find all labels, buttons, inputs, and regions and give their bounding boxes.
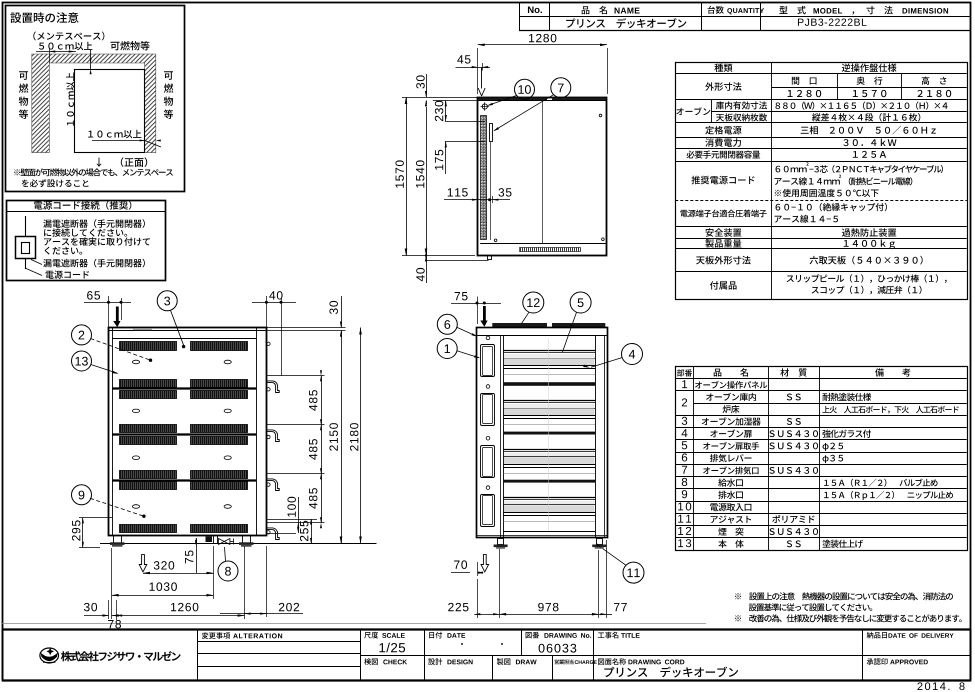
front direction label	[97, 157, 148, 167]
plan bottom foot	[488, 256, 492, 260]
charge label	[554, 659, 573, 664]
callout 10	[515, 79, 535, 99]
approved label	[867, 658, 888, 665]
dim 45	[457, 55, 470, 63]
parts row 1	[682, 380, 687, 388]
plan power inlet circle	[482, 104, 487, 109]
dim 978	[538, 603, 558, 611]
front body outline	[477, 328, 608, 538]
breaker symbol	[25, 216, 27, 237]
parts row 8	[682, 478, 687, 486]
deck divider line 3	[112, 479, 256, 481]
plan chimney duct dotted	[481, 116, 487, 240]
delivery label	[867, 632, 887, 639]
note line3	[735, 614, 962, 622]
company logo	[40, 648, 59, 663]
combustibles right label	[164, 71, 173, 80]
parts row 2 num	[682, 398, 687, 406]
50cm dimension	[36, 51, 76, 53]
plan center split line	[542, 100, 544, 243]
spec row outer dims	[705, 82, 741, 91]
dim 1570	[395, 160, 403, 187]
deck sections	[503, 350, 595, 352]
power cord box	[7, 201, 166, 281]
maintenance space label	[33, 32, 104, 41]
installation notes title	[10, 12, 78, 23]
callout 1	[437, 339, 457, 359]
parts row 10	[678, 502, 691, 510]
spec cord line2	[775, 177, 840, 185]
spec row kind	[714, 64, 732, 72]
dim 115	[448, 188, 468, 196]
dim 255	[311, 519, 313, 544]
design label	[428, 658, 442, 665]
spec row sheet size	[696, 256, 751, 265]
front right column lines	[595, 336, 597, 538]
side view gray patch top	[133, 329, 152, 331]
title label	[598, 632, 618, 639]
plan foot ext line	[426, 260, 489, 262]
date dots	[461, 643, 463, 645]
power cord label	[46, 270, 89, 278]
title block verticals	[197, 629, 199, 680]
title block frame	[2, 628, 971, 630]
dim 1030	[150, 582, 177, 590]
callout 7	[551, 78, 571, 98]
installation notes box	[6, 6, 185, 192]
side view inner right line	[256, 328, 258, 536]
vent band deck1 top	[120, 342, 177, 351]
spec row consumption	[705, 138, 741, 147]
front base lines	[503, 531, 595, 533]
spec row breaker	[687, 151, 761, 159]
vent band deck3 top	[120, 437, 177, 445]
10cm bottom dimension	[92, 140, 145, 142]
spec terminal line2	[775, 215, 838, 223]
drawing no value	[539, 644, 577, 653]
callout 2	[72, 325, 92, 345]
callout 5	[570, 292, 591, 313]
deck divider line 2	[112, 433, 256, 435]
dim 225	[448, 603, 468, 611]
separator line above title block	[2, 623, 706, 625]
dim 30 bottom	[84, 603, 97, 611]
hatched wall region	[32, 54, 156, 153]
dim 230	[435, 101, 443, 121]
dim 30 plan left	[416, 75, 424, 88]
parts row 9	[682, 490, 687, 498]
scale label	[364, 632, 378, 639]
parts header	[677, 369, 692, 376]
parts row 11	[678, 515, 691, 523]
vent band deck4 top	[120, 482, 177, 490]
dim 35	[498, 188, 511, 196]
dim 77	[614, 603, 627, 611]
down arrow 70	[481, 555, 489, 572]
vent band deck2 top	[120, 391, 177, 399]
parts row 12	[678, 527, 691, 535]
check label	[364, 658, 378, 665]
plan exhaust slot item7	[490, 124, 493, 142]
wall note line2	[22, 179, 89, 187]
10cm bottom label	[88, 130, 141, 139]
power cord box title	[34, 201, 131, 210]
side legs	[114, 536, 122, 544]
callout 9	[72, 485, 92, 505]
dim 1540	[416, 160, 424, 187]
callout 8	[218, 561, 238, 581]
parts row 4	[682, 429, 688, 437]
draw label	[497, 658, 511, 665]
deck divider line 1	[112, 387, 256, 389]
dim 485 stack	[321, 376, 323, 523]
side view top plate lines	[109, 330, 267, 332]
dim 2180	[360, 328, 362, 544]
plan bottom vent strip	[520, 248, 581, 252]
front top plate	[477, 335, 608, 337]
spec row terminal label	[680, 210, 766, 218]
header table grid	[519, 2, 521, 31]
spec table grid	[676, 63, 968, 300]
company name	[61, 651, 180, 661]
drawing no label	[526, 632, 540, 639]
dim 202	[279, 603, 299, 611]
combustibles left label	[19, 71, 28, 80]
drawing name label	[598, 658, 626, 665]
scale value	[379, 643, 405, 653]
panel circles	[486, 336, 490, 340]
dim 1280	[529, 34, 556, 42]
plan view outline	[478, 98, 607, 256]
spec row inner dims	[716, 101, 767, 109]
parts row 13	[678, 539, 691, 547]
callout 4	[622, 344, 643, 365]
spec terminal line1	[776, 203, 887, 211]
dim 40 plan	[416, 268, 424, 281]
dim 2150	[341, 331, 343, 544]
spec row weight	[705, 239, 741, 248]
callout 3	[157, 291, 177, 311]
ground line side view	[100, 543, 377, 545]
operation panels	[481, 345, 495, 377]
dim 78	[108, 620, 121, 628]
dim 70	[454, 560, 467, 568]
combustibles top label	[111, 41, 150, 50]
parts row 7	[682, 466, 687, 474]
side view inner left line	[112, 328, 114, 536]
dim 75 side	[196, 538, 198, 573]
front left column lines	[500, 336, 502, 538]
dim 75 front top	[455, 292, 468, 300]
header model number	[798, 18, 867, 25]
door handles side	[266, 375, 324, 377]
dim 1260	[171, 603, 198, 611]
parts row 6	[682, 453, 687, 461]
callout 11	[623, 562, 644, 583]
dim 320	[154, 561, 174, 569]
parts row 3	[682, 417, 687, 425]
oven footprint rect	[75, 70, 145, 153]
spec row cord label	[691, 176, 754, 185]
dim 295	[82, 518, 84, 547]
plan inner bottom line	[480, 243, 605, 245]
dim 65 side top	[87, 291, 100, 299]
parts row 5	[682, 441, 687, 449]
callout 13	[72, 351, 92, 371]
plan top band bottom line	[478, 100, 607, 102]
drain assembly	[206, 537, 213, 543]
power drop thick arrow front	[483, 306, 486, 321]
callout 6	[437, 314, 457, 334]
date label	[429, 632, 442, 639]
alteration rows	[198, 641, 361, 643]
wall note line1	[14, 168, 173, 176]
header product name	[566, 18, 686, 28]
side view body outline	[109, 328, 267, 536]
dim 100	[298, 497, 300, 533]
parts table grid	[676, 367, 968, 551]
parts row 2b	[723, 405, 740, 413]
breaker label	[43, 259, 145, 268]
50cm label	[39, 42, 92, 51]
spec cord line1	[776, 166, 807, 173]
spec oven label	[676, 107, 710, 115]
power cord drop arrow plan	[481, 67, 483, 88]
plan top chimney band	[479, 98, 548, 101]
alteration label	[202, 632, 230, 639]
door hinge circles	[267, 342, 270, 345]
spec cord line3	[775, 189, 879, 197]
breaker instruction text	[43, 219, 145, 228]
10cm top dimension	[90, 50, 92, 69]
vent band deck1 bottom	[120, 380, 177, 388]
spec row safety	[706, 228, 742, 237]
front legs	[498, 539, 504, 545]
vent band deck3 bottom	[120, 471, 177, 479]
dim 40 side top	[269, 291, 282, 299]
spec row accessories	[710, 281, 737, 289]
header table labels	[528, 6, 542, 13]
power cord label leader	[25, 268, 42, 276]
front center faint line	[548, 338, 550, 531]
front chimney band	[492, 323, 547, 328]
drawing name value	[604, 667, 738, 678]
parts row 2a	[706, 393, 756, 401]
10cm vertical label	[66, 73, 75, 126]
down arrow 320	[139, 555, 147, 572]
date stamp	[917, 682, 964, 690]
oval fasteners	[132, 360, 139, 364]
plan corner screws	[494, 239, 497, 242]
dim 30 side top right	[329, 301, 337, 314]
callout 12	[523, 292, 544, 313]
vent band deck2 bottom	[120, 425, 177, 433]
note line2	[749, 603, 872, 611]
spec row shelf count	[716, 113, 767, 121]
title block mid line	[361, 655, 971, 657]
spec row power	[705, 126, 741, 135]
note line1	[735, 592, 953, 600]
power drop thick arrow side	[116, 307, 119, 322]
dim 175	[435, 150, 443, 170]
breaker label leader	[31, 260, 42, 265]
vent band deck4 bottom	[120, 525, 177, 533]
